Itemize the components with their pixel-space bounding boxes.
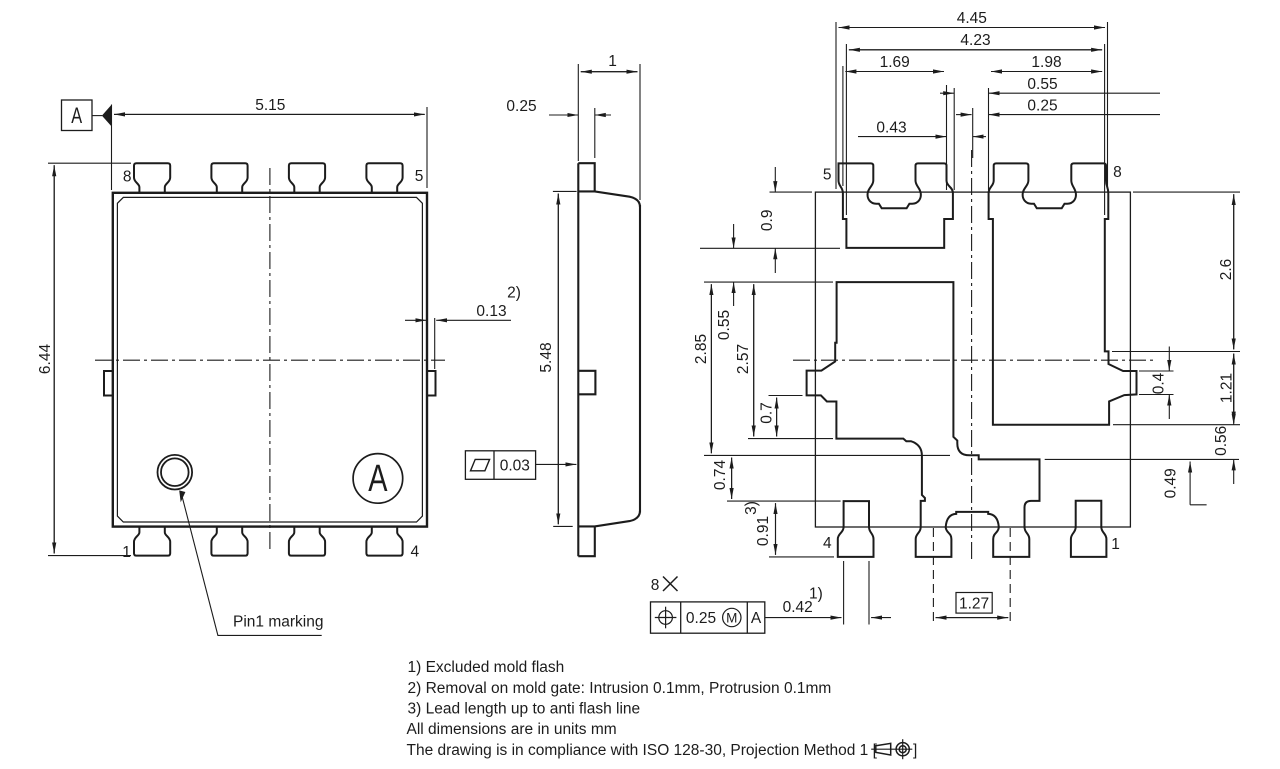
- svg-text:1.21: 1.21: [1219, 373, 1236, 403]
- dimension 2.6: [1233, 194, 1235, 349]
- front left side tab: [104, 371, 113, 396]
- front pin 3 bottom: [289, 527, 325, 556]
- bottom view body outline: [815, 192, 1130, 527]
- left extension lines of bottom view: [700, 192, 950, 557]
- svg-text:5.48: 5.48: [538, 342, 555, 372]
- dimension 0.25 top: [956, 114, 1160, 116]
- svg-text:1.98: 1.98: [1031, 54, 1061, 71]
- svg-text:2) Removal on mold gate: Intru: 2) Removal on mold gate: Intrusion 0.1mm…: [408, 680, 832, 697]
- side view top lead stub: [578, 163, 594, 191]
- svg-text:1: 1: [1111, 536, 1120, 553]
- side view body bottom edge: [578, 511, 640, 527]
- bottom view source/gate structure with pins 3-2, side tab and center channel: [807, 282, 1040, 557]
- svg-text:1): 1): [809, 585, 823, 602]
- dimension 1.98: [991, 71, 1102, 73]
- notes text block: [407, 659, 918, 759]
- svg-text:0.03: 0.03: [500, 458, 530, 475]
- front view body outline: [113, 193, 427, 527]
- dimension 0.74: [731, 458, 733, 500]
- svg-text:8: 8: [1113, 164, 1122, 181]
- svg-text:2): 2): [507, 284, 521, 301]
- side view body top edge: [578, 191, 640, 207]
- bottom view centerlines: [793, 150, 1157, 622]
- svg-text:M: M: [726, 610, 737, 625]
- dimension 1.21: [1233, 354, 1235, 423]
- datum A flag: [62, 100, 112, 131]
- dimension 1 (side view width): [578, 64, 640, 200]
- svg-text:3): 3): [743, 501, 760, 515]
- dimension 6.44: [48, 163, 131, 555]
- dimension 0.42 with note 1): [765, 617, 891, 619]
- dimension 0.7: [776, 398, 778, 437]
- svg-text:0.9: 0.9: [759, 210, 776, 232]
- bottom view pad pins 5-6: [839, 163, 953, 248]
- front view centerlines: [95, 168, 445, 551]
- svg-text:0.56: 0.56: [1213, 426, 1230, 456]
- svg-text:6.44: 6.44: [37, 344, 54, 375]
- dimension 5.15: [112, 105, 428, 191]
- svg-text:4.23: 4.23: [960, 32, 990, 49]
- first angle projection symbol: [871, 739, 912, 759]
- svg-text:1.27: 1.27: [959, 595, 989, 612]
- bottom extension lines (0.42): [844, 561, 869, 625]
- front pin 8 top: [134, 163, 170, 193]
- flatness leader arrow: [536, 463, 577, 465]
- svg-text:2.6: 2.6: [1218, 259, 1235, 281]
- dimension 5.48 (side view height): [553, 191, 577, 526]
- svg-text:4.45: 4.45: [957, 10, 987, 27]
- side view right edge: [639, 205, 641, 513]
- svg-text:0.55: 0.55: [1027, 76, 1057, 93]
- bottom view pad pins 7-8 (drain pad): [989, 163, 1137, 424]
- dimension 0.25 (lead thickness): [549, 108, 611, 158]
- svg-text:A: A: [751, 610, 762, 627]
- svg-text:0.13: 0.13: [476, 303, 506, 320]
- front pin 5 top: [366, 163, 402, 193]
- dimension 0.43: [858, 136, 986, 138]
- dimension 0.9: [774, 167, 776, 273]
- dimension 0.55 left: [733, 224, 735, 306]
- svg-text:A: A: [368, 457, 388, 500]
- dimension 2.57: [753, 284, 755, 436]
- svg-text:0.25: 0.25: [506, 98, 536, 115]
- front view body inner edge line: [117, 197, 422, 522]
- front pin 2 bottom: [211, 527, 247, 556]
- front pin 6 top: [289, 163, 325, 193]
- right extension lines of bottom view: [1045, 192, 1240, 505]
- circled M modifier: [723, 608, 741, 626]
- svg-text:0.49: 0.49: [1163, 468, 1180, 498]
- side view bottom lead stub: [578, 526, 595, 556]
- svg-text:0.25: 0.25: [686, 610, 716, 627]
- svg-text:5: 5: [823, 166, 832, 183]
- svg-text:0.4: 0.4: [1151, 372, 1168, 394]
- svg-text:Pin1 marking: Pin1 marking: [233, 614, 323, 631]
- dimension 1.69: [845, 71, 944, 73]
- svg-text:]: ]: [913, 742, 917, 759]
- svg-text:0.55: 0.55: [716, 310, 733, 340]
- side view left edge: [577, 163, 579, 556]
- dimension 0.56: [1233, 400, 1235, 484]
- top extension lines of bottom view: [836, 22, 1108, 215]
- side view side tab: [578, 371, 595, 395]
- svg-text:0.25: 0.25: [1027, 97, 1057, 114]
- svg-text:5: 5: [415, 168, 424, 185]
- svg-text:1) Excluded mold flash: 1) Excluded mold flash: [408, 659, 565, 676]
- dimension 1.27 (boxed): [936, 593, 1009, 618]
- dimension 0.91 with note 3): [775, 503, 777, 555]
- dimension 4.23: [849, 49, 1102, 51]
- dimension 2.85: [710, 284, 712, 453]
- svg-text:0.7: 0.7: [759, 402, 776, 424]
- svg-text:1: 1: [608, 53, 617, 70]
- svg-text:0.91: 0.91: [755, 516, 772, 546]
- svg-text:3) Lead length up to anti flas: 3) Lead length up to anti flash line: [408, 700, 641, 717]
- bottom view pin 4 (gate lead): [838, 501, 874, 557]
- svg-text:2.57: 2.57: [735, 344, 752, 374]
- bottom view pin 1: [1071, 501, 1107, 557]
- svg-text:8: 8: [123, 169, 132, 186]
- front pin 1 bottom: [134, 527, 170, 556]
- front pin 4 bottom: [366, 527, 402, 556]
- svg-text:The drawing is in compliance w: The drawing is in compliance with ISO 12…: [407, 742, 878, 759]
- svg-text:All dimensions are in units mm: All dimensions are in units mm: [407, 721, 617, 738]
- front right side tab: [427, 371, 436, 396]
- circled A marker: [353, 454, 403, 504]
- svg-text:1: 1: [122, 544, 131, 561]
- svg-text:0.74: 0.74: [712, 460, 729, 491]
- dimension 0.49: [1189, 462, 1191, 505]
- position feature control frame 0.25 M A: [651, 602, 765, 633]
- svg-text:4: 4: [410, 543, 419, 560]
- dimension 0.13 with note 2): [405, 318, 511, 369]
- svg-text:A: A: [71, 104, 82, 129]
- svg-text:5.15: 5.15: [255, 97, 285, 114]
- svg-text:0.43: 0.43: [876, 119, 906, 136]
- front pin 7 top: [211, 163, 247, 193]
- dimension 0.4 (side tab): [1168, 347, 1170, 420]
- flatness feature control frame 0.03: [465, 451, 535, 480]
- dimension 0.55 top: [940, 92, 1160, 94]
- pin1 marking circle: [158, 455, 193, 490]
- position symbol: [655, 607, 677, 629]
- svg-text:8: 8: [651, 577, 660, 594]
- dimension 4.45: [839, 27, 1106, 29]
- svg-text:4: 4: [823, 535, 832, 552]
- pin1 leader line: [179, 490, 322, 635]
- svg-text:2.85: 2.85: [693, 334, 710, 364]
- svg-text:1.69: 1.69: [880, 54, 910, 71]
